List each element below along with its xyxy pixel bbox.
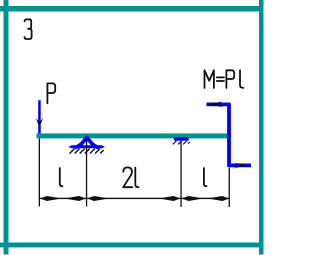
dim arrow 2l: right head [162, 196, 181, 201]
dim arrow right l: right head [211, 196, 230, 201]
label l (left span) [60, 168, 63, 186]
frame top border line [0, 6, 264, 12]
dim arrow 2l: left head [87, 196, 106, 201]
M [205, 70, 214, 88]
label 2l (middle span) [123, 167, 132, 187]
beam [37, 133, 232, 138]
label l (right span) [204, 168, 207, 186]
moment bottom arm arrowhead (points right) [234, 163, 249, 169]
dimension extension line at left beam end [39, 138, 40, 206]
force P arrow shaft [38, 100, 41, 133]
roller support B hatching [173, 141, 190, 144]
label problem number 3 [25, 19, 32, 39]
frame left border line [4, 0, 9, 255]
frame bottom border line [0, 243, 264, 248]
label M=Pl [205, 70, 244, 88]
dimension line [39, 198, 229, 199]
pin support A ground line [68, 145, 105, 148]
dimension extension line at support B [180, 141, 181, 207]
moment top arm arrowhead (points left) [207, 102, 224, 108]
dimension extension line at support A [86, 139, 87, 207]
dim arrow right l: left head [182, 196, 201, 201]
l [240, 70, 243, 88]
pin support A apex wedge [84, 137, 89, 142]
roller support B bar [174, 137, 189, 140]
label P [47, 83, 55, 103]
force P arrowhead [36, 118, 44, 127]
P [226, 70, 234, 88]
pin support A triangle [76, 138, 97, 148]
= [217, 77, 224, 81]
pin support A hatching [70, 149, 104, 154]
dim arrow left l: left head [40, 196, 59, 201]
moment bracket (Z shape) [207, 104, 252, 165]
frame right border line [259, 0, 264, 255]
dimension extension line at right beam end [229, 168, 230, 208]
dim arrow left l: right head [67, 196, 86, 201]
